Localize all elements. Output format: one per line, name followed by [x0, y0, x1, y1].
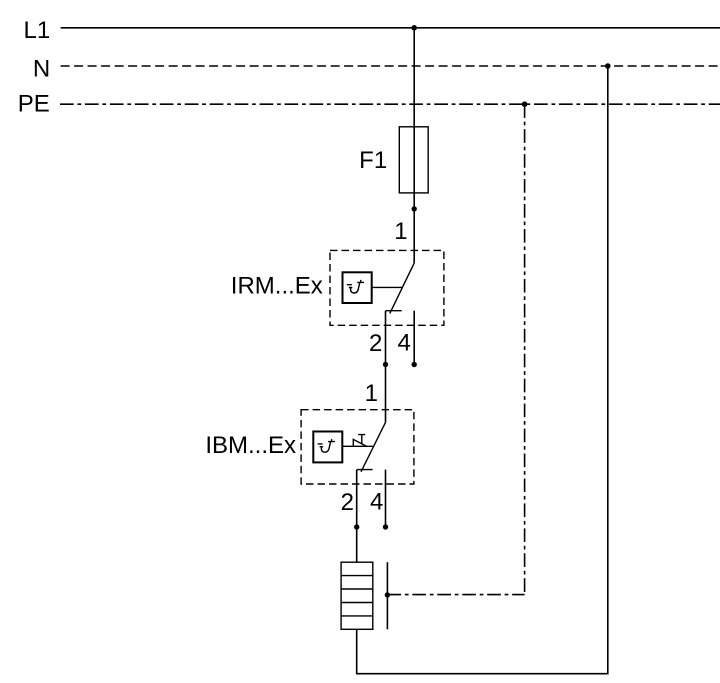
fuse F1 [399, 127, 428, 193]
svg-text:1: 1 [394, 218, 407, 245]
terminal dot below fuse [412, 206, 417, 211]
terminal dot IRM pin 4 [412, 362, 417, 367]
IRM float sensor symbol [347, 280, 364, 293]
PE dash-dot dropper wire [524, 104, 526, 594]
bus PE line (dash-dot) [60, 103, 720, 105]
svg-text:2: 2 [341, 489, 354, 516]
load internal line 2 [341, 588, 373, 590]
terminal dot IBM pin 4 [383, 524, 388, 529]
terminal dot on electrode [385, 592, 390, 597]
IRM pin 4 wire [413, 311, 415, 365]
IRM pin 2 wire down to IBM pin 1 [385, 311, 387, 423]
svg-text:F1: F1 [359, 147, 387, 174]
IBM actuating link [342, 445, 373, 447]
svg-text:PE: PE [18, 91, 50, 118]
return wire from load bottom to N [357, 66, 608, 674]
load internal line 1 [341, 575, 373, 577]
IBM latching wedge symbol [353, 439, 366, 446]
svg-text:IRM...Ex: IRM...Ex [231, 273, 323, 300]
PE dash-dot link to electrode [387, 594, 524, 596]
IBM manual reset T symbol [358, 435, 365, 444]
IBM sensor box [313, 432, 342, 463]
load internal line 4 [341, 615, 373, 617]
IRM actuating link [372, 286, 403, 288]
electrode line beside load [386, 562, 388, 629]
svg-text:2: 2 [369, 330, 382, 357]
svg-text:L1: L1 [23, 17, 50, 44]
load / probe body rect [341, 562, 373, 629]
module IBM...Ex dashed box [301, 410, 414, 484]
svg-text:4: 4 [370, 488, 383, 515]
terminal dot IBM pin 2 [354, 524, 359, 529]
terminal dot IRM pin 2 [383, 362, 388, 367]
svg-text:IBM...Ex: IBM...Ex [205, 432, 296, 459]
junction dot on L1 [411, 25, 417, 31]
bus L1 line [61, 27, 720, 29]
svg-text:1: 1 [365, 380, 378, 407]
IRM switch blade [390, 263, 414, 313]
junction dot on N [605, 63, 611, 69]
junction dot on PE [522, 101, 528, 107]
load internal line 3 [341, 602, 373, 604]
IBM pin 2 wire down to load [356, 470, 358, 563]
module IRM...Ex dashed box [330, 250, 444, 325]
bus N line (dashed) [61, 65, 720, 67]
IBM pin 4 wire [385, 470, 387, 527]
IRM sensor box [343, 272, 372, 303]
svg-text:4: 4 [397, 329, 410, 356]
IBM contact 2 corner [357, 469, 373, 471]
IBM float sensor symbol [318, 439, 335, 452]
wire from L1 down through fuse to switch pivot [413, 28, 415, 263]
svg-text:N: N [33, 56, 50, 83]
IBM switch blade [361, 422, 386, 471]
IRM contact 2 corner [386, 310, 402, 312]
